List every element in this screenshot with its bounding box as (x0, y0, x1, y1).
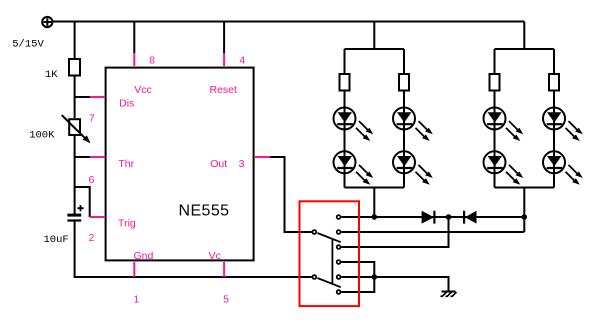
svg-text:Vc: Vc (209, 250, 221, 262)
svg-text:Out: Out (210, 158, 227, 170)
svg-text:4: 4 (239, 54, 245, 66)
svg-text:Reset: Reset (209, 84, 237, 96)
svg-text:NE555: NE555 (179, 203, 230, 220)
svg-text:100K: 100K (29, 129, 55, 141)
svg-text:3: 3 (239, 158, 245, 170)
svg-text:7: 7 (89, 113, 95, 125)
svg-text:10uF: 10uF (43, 234, 68, 246)
svg-text:Thr: Thr (118, 158, 134, 170)
svg-text:5/15V: 5/15V (12, 39, 44, 51)
svg-text:1K: 1K (45, 69, 58, 81)
svg-text:8: 8 (149, 54, 155, 66)
svg-text:2: 2 (88, 232, 94, 244)
svg-text:Gnd: Gnd (133, 250, 153, 262)
svg-text:5: 5 (223, 294, 229, 306)
svg-text:Trig: Trig (118, 218, 136, 230)
svg-text:Dis: Dis (119, 98, 134, 110)
svg-text:6: 6 (88, 174, 94, 186)
svg-text:1: 1 (133, 294, 139, 306)
svg-text:Vcc: Vcc (134, 84, 152, 96)
